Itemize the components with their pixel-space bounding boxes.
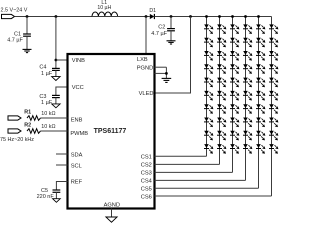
LED string 4 diode 8 — [243, 118, 252, 128]
LED string 6 diode 10 — [269, 144, 278, 154]
LED string 6 diode 9 — [269, 131, 278, 141]
wire: LED string 5 vertical and return to CS5 — [258, 17, 260, 189]
IC U1 TPS61177 boost LED driver — [68, 54, 155, 209]
ground (C3) — [52, 104, 60, 108]
LED string 3 diode 10 — [230, 144, 239, 154]
wire: C1 to ground — [26, 36, 28, 49]
LED string 2 diode 4 — [217, 64, 226, 74]
ground (PGND) — [162, 78, 172, 82]
svg-text:VCC: VCC — [72, 85, 84, 91]
node: PGND junction — [165, 72, 168, 75]
capacitor C1 4.7uF — [7, 32, 31, 44]
node: LED string 2 anode bus junction — [218, 15, 221, 18]
ground (C5) — [53, 199, 61, 203]
wire: VLED sense wire — [155, 17, 191, 94]
wire: C5 to ground — [55, 192, 57, 198]
pin label CS5 — [141, 187, 152, 193]
LED string 1 diode 3 — [204, 51, 213, 61]
LED string 4 diode 10 — [243, 144, 252, 154]
LED string 2 diode 10 — [217, 144, 226, 154]
node: VINB junction — [55, 59, 58, 62]
LED string 6 diode 7 — [269, 104, 278, 114]
wire: PGND pins to ground — [155, 67, 167, 78]
pin label CS4 — [141, 179, 152, 185]
LED string 6 (10 LEDs in series to CS6) — [155, 17, 279, 197]
wire: input bus VIN to inductor — [15, 16, 93, 18]
svg-text:ENB: ENB — [71, 118, 83, 124]
PWM input terminal (PWMB) 75Hz-20kHz — [0, 122, 34, 143]
svg-text:1 µF: 1 µF — [41, 100, 53, 106]
LED string 5 (10 LEDs in series to CS5) — [155, 15, 266, 188]
LED string 6 diode 1 — [269, 24, 278, 34]
wire: D1 cathode to LED bus — [154, 16, 271, 18]
LED string 2 diode 3 — [217, 51, 226, 61]
LED string 2 diode 9 — [217, 131, 226, 141]
LED string 3 diode 7 — [230, 104, 239, 114]
LED string 5 diode 1 — [256, 24, 265, 34]
LED string 1 diode 1 — [204, 24, 213, 34]
wire: C2 to ground — [170, 31, 172, 41]
LED string 1 (10 LEDs in series to CS1) — [155, 15, 214, 156]
node: VINB/C4 tap on input bus — [55, 15, 58, 18]
LED string 3 diode 5 — [230, 78, 239, 88]
pin label ENB — [71, 118, 83, 124]
wire: C2 branch — [170, 17, 172, 29]
svg-text:TPS61177: TPS61177 — [94, 128, 127, 135]
wire: LED string 1 vertical and return to CS1 — [206, 17, 208, 157]
svg-text:10 µH: 10 µH — [97, 5, 111, 11]
LED string 4 diode 2 — [243, 38, 252, 48]
LED string 2 (10 LEDs in series to CS2) — [155, 15, 227, 164]
svg-text:CS2: CS2 — [141, 163, 152, 169]
LED string 1 diode 10 — [204, 144, 213, 154]
LED string 4 (10 LEDs in series to CS4) — [155, 15, 253, 180]
LED string 1 diode 7 — [204, 104, 213, 114]
node: LED string 4 anode bus junction — [244, 15, 247, 18]
wire: LED string 6 vertical and return to CS6 — [271, 17, 273, 197]
LED string 3 diode 2 — [230, 38, 239, 48]
pin label PWMB — [70, 131, 88, 137]
wire: inductor to switch node — [118, 16, 150, 18]
inductor L1 10uH — [92, 0, 118, 17]
LED string 3 diode 6 — [230, 91, 239, 101]
svg-text:VLED: VLED — [139, 91, 154, 97]
svg-text:CS4: CS4 — [141, 179, 152, 185]
pin label PGND — [137, 65, 153, 71]
pin label VINB — [72, 58, 85, 64]
svg-text:CS3: CS3 — [141, 171, 152, 177]
LED string 4 diode 9 — [243, 131, 252, 141]
LED string 4 diode 4 — [243, 64, 252, 74]
LED string 2 diode 6 — [217, 91, 226, 101]
LED string 3 diode 4 — [230, 64, 239, 74]
LED string 6 diode 4 — [269, 64, 278, 74]
wire: VCC pin to C3 — [56, 87, 68, 95]
resistor R2 10k — [27, 124, 56, 133]
LED string 6 diode 2 — [269, 38, 278, 48]
node: LED string 1 anode bus junction — [205, 15, 208, 18]
ground (C2) — [167, 41, 176, 44]
svg-text:1 µF: 1 µF — [41, 71, 53, 77]
pin label AGND — [104, 202, 120, 208]
LED string 2 diode 1 — [217, 24, 226, 34]
LED string 6 diode 6 — [269, 91, 278, 101]
input supply terminal J1 2.5V-24V — [1, 8, 28, 19]
svg-text:R2: R2 — [24, 122, 31, 128]
LED string 6 diode 3 — [269, 51, 278, 61]
enable input terminal (ENB) — [8, 109, 31, 120]
LED string 1 diode 4 — [204, 64, 213, 74]
pin label VCC — [72, 85, 84, 91]
capacitor C2 4.7uF — [151, 25, 175, 37]
svg-text:D1: D1 — [149, 8, 156, 14]
wire: C1 branch — [26, 17, 28, 35]
LED string 5 diode 9 — [256, 131, 265, 141]
ground (C1) — [23, 49, 32, 52]
LED string 4 diode 1 — [243, 24, 252, 34]
LED string 3 diode 3 — [230, 51, 239, 61]
wire: SDA stub — [56, 153, 68, 155]
LED string 5 diode 10 — [256, 144, 265, 154]
svg-text:CS6: CS6 — [141, 194, 152, 200]
pin label LXB — [137, 57, 148, 63]
svg-text:C2: C2 — [158, 25, 165, 31]
LED string 6 diode 5 — [269, 78, 278, 88]
svg-text:VINB: VINB — [72, 58, 85, 64]
LED string 1 diode 2 — [204, 38, 213, 48]
wire: LXB to IC top — [145, 17, 147, 55]
pin label REF — [71, 180, 83, 186]
node: LED string 5 anode bus junction — [257, 15, 260, 18]
pin label CS3 — [141, 171, 152, 177]
pin label VLED — [139, 91, 154, 97]
LED string 3 (10 LEDs in series to CS3) — [155, 15, 240, 172]
pin label SDA — [71, 153, 83, 159]
wire: LED string 4 vertical and return to CS4 — [245, 17, 247, 181]
LED string 4 diode 7 — [243, 104, 252, 114]
wire: bus down to VINB and C4 — [55, 17, 57, 69]
wire: LED string 3 vertical and return to CS3 — [232, 17, 234, 173]
wire: REF to C5 — [56, 182, 67, 191]
LED string 2 diode 2 — [217, 38, 226, 48]
svg-text:CS5: CS5 — [141, 187, 152, 193]
LED string 4 diode 3 — [243, 51, 252, 61]
LED string 2 diode 8 — [217, 118, 226, 128]
LED string 5 diode 3 — [256, 51, 265, 61]
svg-text:PWMB: PWMB — [70, 131, 88, 137]
svg-text:75 Hz~20 kHz: 75 Hz~20 kHz — [0, 137, 34, 143]
svg-text:220 nF: 220 nF — [37, 194, 55, 200]
LED string 5 diode 5 — [256, 78, 265, 88]
wire: VINB pin wire — [56, 59, 68, 61]
svg-text:C4: C4 — [39, 65, 46, 71]
svg-text:4.7 µF: 4.7 µF — [7, 38, 23, 44]
svg-text:4.7 µF: 4.7 µF — [151, 31, 167, 37]
svg-text:SDA: SDA — [71, 153, 83, 159]
capacitor C3 1uF — [39, 94, 59, 106]
svg-text:2.5 V~24 V: 2.5 V~24 V — [1, 8, 28, 14]
capacitor C5 220nF — [37, 188, 61, 200]
node: C1 tap on input bus — [26, 15, 29, 18]
node: VLED tap — [189, 15, 192, 18]
wire: R1 to ENB pin — [41, 117, 68, 119]
svg-text:AGND: AGND — [104, 202, 120, 208]
svg-text:SCL: SCL — [71, 164, 82, 170]
LED string 4 diode 6 — [243, 91, 252, 101]
LED string 3 diode 8 — [230, 118, 239, 128]
LED string 2 diode 7 — [217, 104, 226, 114]
LED string 5 diode 2 — [256, 38, 265, 48]
svg-text:CS1: CS1 — [141, 155, 152, 161]
pin label SCL — [71, 164, 82, 170]
svg-text:REF: REF — [71, 180, 83, 186]
pin label CS1 — [141, 155, 152, 161]
resistor R1 10k — [27, 111, 56, 120]
svg-text:PGND: PGND — [137, 65, 153, 71]
node: LXB switch node — [145, 15, 148, 18]
wire: C3 to ground — [55, 98, 57, 104]
node: LED string 3 anode bus junction — [231, 15, 234, 18]
ground (C4) — [52, 77, 60, 81]
LED string 5 diode 6 — [256, 91, 265, 101]
pin label CS2 — [141, 163, 152, 169]
wire: C4 to ground — [55, 70, 57, 76]
LED string 2 diode 5 — [217, 78, 226, 88]
LED string 5 diode 8 — [256, 118, 265, 128]
LED string 1 diode 6 — [204, 91, 213, 101]
ground (AGND) — [106, 217, 117, 222]
wire: R2 to PWMB pin — [41, 130, 68, 132]
LED string 4 diode 5 — [243, 78, 252, 88]
LED string 3 diode 9 — [230, 131, 239, 141]
pin label CS6 — [141, 194, 152, 200]
capacitor C4 1uF — [39, 65, 59, 77]
LED string 1 diode 9 — [204, 131, 213, 141]
LED string 1 diode 5 — [204, 78, 213, 88]
wire: LED string 2 vertical and return to CS2 — [219, 17, 221, 165]
wire: SCL stub — [56, 164, 68, 166]
node: C2 tap — [170, 15, 173, 18]
wire: AGND to ground — [111, 209, 113, 218]
svg-text:R1: R1 — [24, 109, 31, 115]
LED string 3 diode 1 — [230, 24, 239, 34]
svg-text:10 kΩ: 10 kΩ — [41, 124, 55, 130]
LED string 6 diode 8 — [269, 118, 278, 128]
LED string 1 diode 8 — [204, 118, 213, 128]
svg-text:10 kΩ: 10 kΩ — [41, 111, 55, 117]
diode D1 (schottky rectifier) — [149, 8, 156, 19]
LED string 5 diode 7 — [256, 104, 265, 114]
LED string 5 diode 4 — [256, 64, 265, 74]
svg-text:LXB: LXB — [137, 57, 148, 63]
